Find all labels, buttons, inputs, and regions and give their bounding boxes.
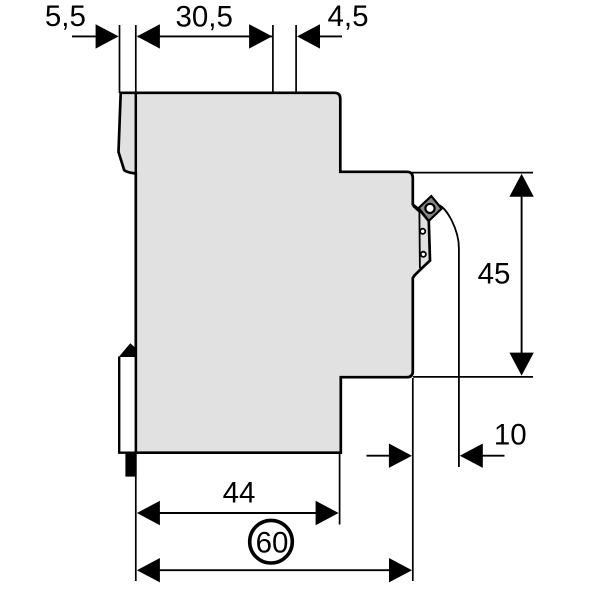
svg-text:10: 10 — [494, 418, 527, 451]
svg-text:4,5: 4,5 — [327, 0, 368, 33]
svg-text:5,5: 5,5 — [45, 0, 86, 33]
svg-text:45: 45 — [478, 257, 511, 290]
svg-text:30,5: 30,5 — [175, 1, 232, 34]
svg-text:44: 44 — [223, 477, 256, 510]
svg-text:60: 60 — [256, 527, 289, 560]
